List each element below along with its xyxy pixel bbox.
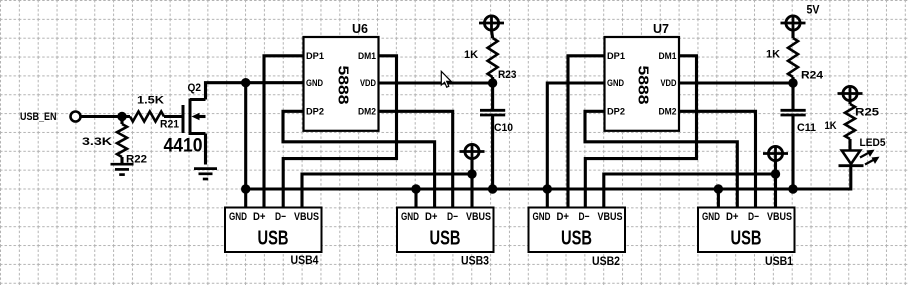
svg-text:GND: GND	[306, 78, 323, 89]
svg-text:4410: 4410	[164, 136, 203, 157]
svg-text:USB: USB	[731, 228, 762, 250]
wire vbus rail left	[302, 174, 472, 208]
LED arrows	[860, 152, 871, 158]
svg-text:VDD: VDD	[360, 78, 376, 89]
svg-text:D−: D−	[275, 211, 286, 223]
power port 5V above R23	[484, 16, 498, 30]
svg-text:USB4: USB4	[291, 253, 319, 267]
wire vbus rail right	[604, 174, 776, 208]
IC U7 box	[605, 37, 680, 131]
resistor R23 1K	[492, 30, 493, 38]
capacitor C10	[491, 83, 494, 110]
svg-text:USB: USB	[258, 228, 289, 250]
wire gnd bus	[246, 187, 793, 190]
node junction VDD/R23/C10	[488, 78, 497, 87]
svg-text:C11: C11	[797, 122, 816, 134]
svg-text:USB2: USB2	[592, 254, 620, 268]
connector USB4	[225, 208, 322, 253]
wire LED5 cathode to gnd bus	[793, 166, 851, 189]
svg-text:D−: D−	[447, 211, 458, 223]
svg-text:D−: D−	[748, 211, 759, 223]
power port above R25	[843, 86, 857, 100]
svg-text:USB_EN: USB_EN	[20, 111, 57, 123]
node junctions on gnd bus	[411, 184, 420, 193]
svg-text:U7: U7	[653, 22, 669, 36]
ground below R22	[111, 163, 134, 166]
wire U7 DP1 to USB2 D+	[568, 56, 605, 208]
wire U6 DP1 to USB4 D+	[264, 56, 304, 208]
svg-text:D+: D+	[425, 211, 438, 223]
wire U7 DM1 to USB2 D-	[585, 56, 696, 208]
svg-text:DM2: DM2	[659, 106, 677, 117]
IC U6 box	[304, 37, 379, 131]
svg-text:5888: 5888	[635, 66, 651, 105]
node junction R21/R22	[117, 112, 126, 121]
LED LED5	[842, 151, 860, 165]
wire Q2 drain to U6 GND pin	[206, 83, 304, 86]
svg-text:USB: USB	[561, 228, 592, 250]
resistor R22 3.3K vertical	[120, 117, 123, 125]
svg-text:USB3: USB3	[461, 253, 489, 267]
svg-text:GND: GND	[702, 211, 720, 223]
svg-text:5V: 5V	[807, 3, 820, 17]
resistor R21 1.5K horizontal	[130, 112, 164, 122]
svg-text:D+: D+	[557, 211, 570, 223]
svg-text:VBUS: VBUS	[767, 211, 792, 223]
wire U6 DP2 to USB3 D+	[283, 111, 435, 207]
svg-text:VBUS: VBUS	[598, 211, 623, 223]
svg-text:VBUS: VBUS	[466, 211, 491, 223]
ground below Q2	[194, 167, 217, 170]
mouse cursor	[441, 71, 451, 87]
connector USB3	[397, 208, 494, 253]
svg-text:DP2: DP2	[306, 106, 324, 117]
power port above USB3 VBUS	[465, 144, 479, 158]
node junction VDD/R24/C11	[788, 78, 797, 87]
resistor R24 1K	[791, 30, 794, 38]
svg-text:1K: 1K	[825, 120, 837, 132]
svg-text:R21: R21	[160, 119, 179, 131]
svg-text:DM1: DM1	[659, 51, 678, 62]
svg-text:R23: R23	[498, 69, 517, 81]
wire USB1 GND stub	[717, 189, 720, 208]
wire USB3 GND stub	[414, 189, 417, 208]
svg-text:R24: R24	[801, 70, 824, 82]
wire U7 GND to gnd bus	[547, 83, 604, 208]
svg-text:VDD: VDD	[661, 78, 677, 89]
svg-text:1.5K: 1.5K	[137, 95, 164, 107]
svg-text:D+: D+	[726, 211, 739, 223]
svg-text:R25: R25	[855, 107, 879, 119]
node USB_EN terminal	[71, 112, 81, 122]
svg-text:U6: U6	[352, 22, 368, 36]
svg-text:1K: 1K	[464, 49, 478, 61]
svg-text:GND: GND	[229, 211, 247, 223]
resistor R25 1K	[848, 101, 851, 104]
svg-text:LED5: LED5	[860, 137, 886, 149]
wire U6 DM1 to USB4 D-	[283, 56, 396, 208]
wire switched-gnd drop to USB4 GND	[244, 83, 247, 208]
svg-text:GND: GND	[533, 211, 551, 223]
svg-text:5888: 5888	[335, 66, 351, 105]
svg-text:Q2: Q2	[188, 82, 202, 94]
wire USB_EN to R21	[81, 115, 130, 118]
wire U7 DP2 to USB1 D+	[585, 111, 737, 207]
capacitor C11	[791, 83, 794, 110]
wire U7 VDD to R24/C11	[679, 81, 793, 84]
svg-text:C10: C10	[494, 122, 513, 134]
wire U6 DM2 to USB3 D-	[379, 111, 453, 207]
svg-text:D+: D+	[253, 211, 266, 223]
power port above USB1 VBUS	[768, 146, 782, 160]
svg-text:GND: GND	[607, 78, 624, 89]
node junction	[241, 78, 250, 87]
transistor Q2 4410 MOSFET	[183, 86, 206, 165]
svg-text:DM1: DM1	[358, 51, 377, 62]
svg-text:D−: D−	[579, 211, 590, 223]
wire R21 to Q2 gate	[164, 115, 184, 118]
connector USB2	[529, 208, 626, 253]
svg-text:1K: 1K	[766, 49, 780, 61]
svg-text:DP2: DP2	[607, 106, 625, 117]
svg-text:DM2: DM2	[358, 106, 376, 117]
svg-text:USB: USB	[430, 228, 461, 250]
connector USB1	[698, 208, 795, 253]
svg-text:GND: GND	[401, 211, 419, 223]
svg-text:VBUS: VBUS	[294, 211, 319, 223]
wire U6 VDD to R23/C10	[379, 81, 493, 84]
wire U7 DM2 to USB1 D-	[679, 111, 756, 207]
svg-text:USB1: USB1	[765, 254, 793, 268]
svg-text:3.3K: 3.3K	[82, 136, 112, 148]
svg-text:DP1: DP1	[607, 51, 626, 62]
svg-text:DP1: DP1	[306, 51, 325, 62]
